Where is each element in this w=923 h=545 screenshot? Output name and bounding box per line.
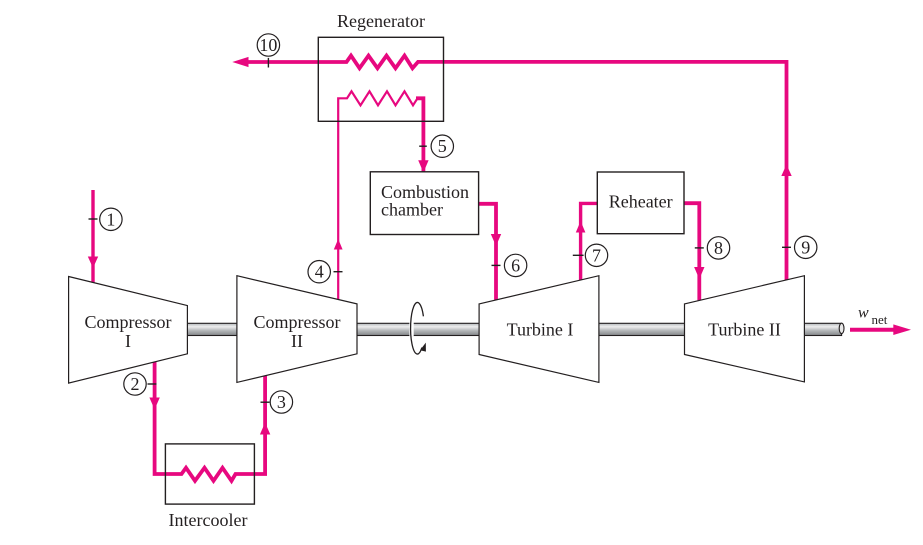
node 10 circle [257, 34, 279, 56]
svg-text:3: 3 [277, 392, 286, 412]
node 3 tick [261, 401, 270, 403]
compressor II body [237, 276, 357, 383]
node 10 tick [267, 58, 269, 68]
node 7 tick [573, 254, 584, 256]
svg-text:5: 5 [438, 136, 447, 156]
wire: state 5 line from regenerator down to combustion chamber [416, 98, 423, 171]
wire: hot gas line from state 9 up and left through regenerator to exhaust at 10 [248, 56, 787, 280]
intercooler box [165, 444, 254, 504]
turbine II body [685, 276, 805, 382]
svg-text:Reheater: Reheater [609, 192, 673, 212]
svg-text:Turbine I: Turbine I [507, 320, 574, 340]
shaft segment between compressor I and compressor II [186, 323, 238, 335]
wire: exhaust arrowhead at state 10 [232, 57, 248, 67]
wire: state 8 line reheater to turbine II [684, 203, 699, 300]
svg-text:7: 7 [592, 245, 601, 265]
turbine I body [479, 276, 599, 383]
node 9 circle [795, 236, 817, 258]
wire: state 2 line compressor I to intercooler, coil, and state 3 line to compressor II [155, 362, 266, 481]
wire: arrowhead on line 4 pointing up [334, 239, 343, 250]
wire: state 1 inlet line into compressor I [91, 190, 94, 283]
node 2 circle [124, 373, 146, 395]
svg-text:6: 6 [511, 255, 520, 275]
svg-text:9: 9 [801, 237, 810, 257]
svg-text:10: 10 [259, 35, 277, 55]
shaft rotation gap [409, 323, 413, 337]
svg-text:4: 4 [315, 262, 324, 282]
wire: arrowhead on line 9 pointing up [781, 165, 791, 177]
wire: arrowhead on line 5 pointing down into combustion chamber [418, 160, 428, 172]
svg-text:II: II [291, 331, 303, 351]
wire: arrowhead on line 6 pointing down [491, 234, 501, 246]
node 5 tick [419, 145, 427, 147]
shaft segment between turbine I and turbine II [598, 323, 687, 335]
shaft rotation arrow symbol [411, 302, 424, 354]
svg-text:chamber: chamber [381, 200, 443, 220]
svg-text:Turbine II: Turbine II [708, 320, 781, 340]
svg-text:w: w [858, 305, 869, 322]
wire: arrowhead on line 1 pointing down [88, 257, 98, 269]
svg-text:1: 1 [106, 209, 115, 229]
node 8 circle [707, 237, 729, 259]
wire: arrowhead on line 8 pointing down [694, 267, 704, 279]
node 5 circle [431, 135, 453, 157]
svg-text:8: 8 [714, 238, 723, 258]
shaft segment between compressor II and turbine I [355, 323, 481, 335]
svg-text:2: 2 [131, 374, 140, 394]
wire: w_net output arrow [850, 328, 894, 332]
node 6 circle [504, 254, 526, 276]
wire: arrowhead on line 2 pointing down [149, 398, 159, 410]
svg-text:Regenerator: Regenerator [337, 11, 425, 31]
node 1 tick [89, 218, 98, 220]
node 4 circle [308, 261, 330, 283]
node 6 tick [492, 264, 501, 266]
node 3 circle [270, 391, 292, 413]
svg-text:Compressor: Compressor [254, 312, 341, 332]
node 8 tick [695, 247, 704, 249]
shaft output segment after turbine II [803, 323, 842, 335]
svg-text:Compressor: Compressor [85, 312, 172, 332]
wire: cold air line state 4 from compressor II up through regenerator cold coil [338, 91, 420, 299]
node 2 tick [148, 383, 157, 385]
svg-text:net: net [872, 312, 888, 327]
node 9 tick [782, 246, 791, 248]
reheater box [597, 172, 684, 234]
wire: arrowhead on line 7 pointing up [576, 221, 586, 233]
wire: state 7 line turbine I to reheater [581, 203, 598, 280]
combustion chamber box [370, 172, 478, 235]
wire: state 6 line combustion chamber to turbine I [479, 204, 496, 300]
compressor I body [69, 277, 188, 384]
node 7 circle [585, 244, 607, 266]
wire: arrowhead on line 3 pointing up [260, 423, 270, 435]
shaft end cap ellipse [839, 323, 844, 333]
regenerator box [318, 37, 443, 121]
svg-text:Intercooler: Intercooler [169, 510, 248, 530]
node 1 circle [100, 208, 122, 230]
node 4 tick [334, 271, 343, 273]
svg-text:I: I [125, 331, 131, 351]
